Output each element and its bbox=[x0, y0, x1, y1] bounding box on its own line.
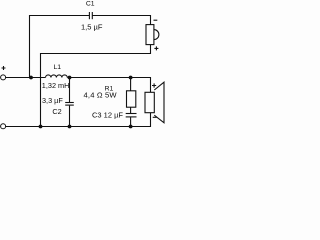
svg-text:L1: L1 bbox=[54, 64, 62, 71]
svg-text:C2: C2 bbox=[52, 107, 61, 116]
svg-text:4,4 Ω 5W: 4,4 Ω 5W bbox=[84, 91, 118, 100]
svg-text:C1: C1 bbox=[86, 0, 95, 7]
svg-text:1,32 mH: 1,32 mH bbox=[42, 81, 70, 90]
svg-text:3,3 µF: 3,3 µF bbox=[42, 96, 63, 105]
svg-text:1,5 µF: 1,5 µF bbox=[81, 22, 103, 31]
svg-text:C3 12 µF: C3 12 µF bbox=[92, 111, 123, 120]
